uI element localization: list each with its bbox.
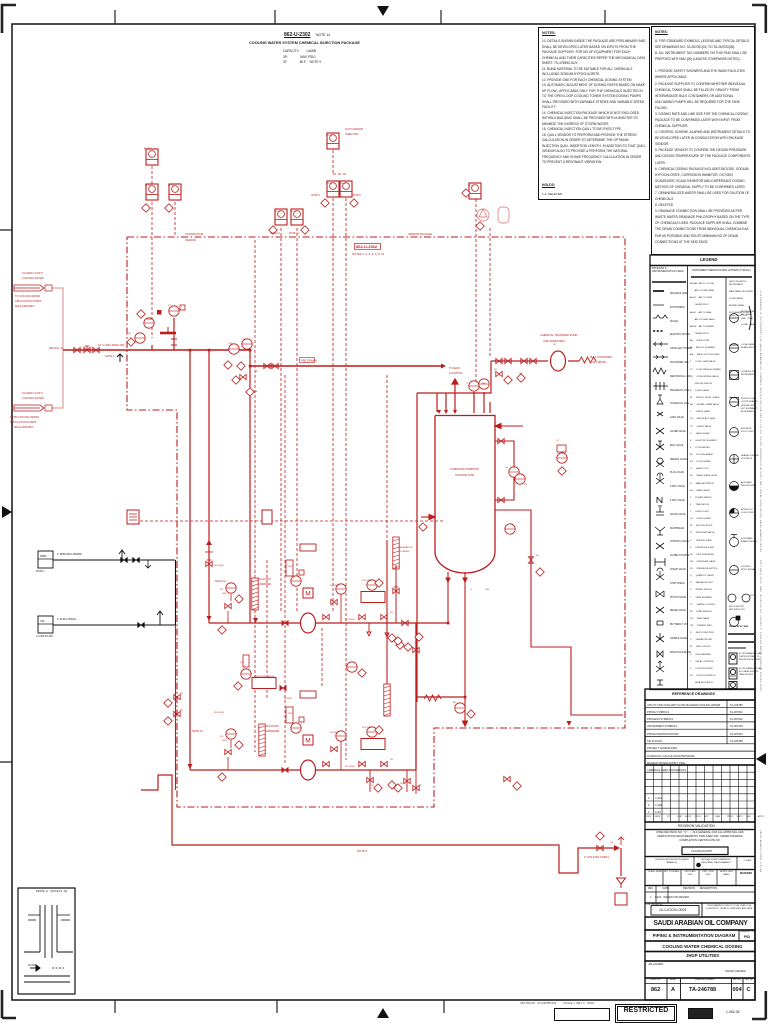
svg-text:HV: HV — [610, 842, 614, 844]
svg-text:PSHH: PSHH — [146, 319, 152, 321]
svg-text:0911: 0911 — [222, 740, 227, 742]
svg-text:CALIBRATION: CALIBRATION — [398, 546, 413, 549]
svg-text:862-E-2300A/B/C: 862-E-2300A/B/C — [14, 426, 34, 429]
svg-text:HV: HV — [536, 555, 540, 557]
svg-text:XV: XV — [371, 785, 374, 787]
svg-text:LG: LG — [505, 467, 508, 469]
svg-text:BULK CONTAINER: BULK CONTAINER — [590, 356, 612, 359]
svg-text:VENDOR: VENDOR — [185, 238, 196, 242]
svg-text:DAMPENER: DAMPENER — [266, 730, 279, 733]
svg-text:862-E-2300A/B/C: 862-E-2300A/B/C — [15, 305, 35, 308]
svg-text:PG: PG — [220, 589, 223, 591]
svg-text:PSV 0912: PSV 0912 — [362, 727, 373, 729]
svg-text:AT 13: AT 13 — [168, 184, 174, 187]
svg-text:XV: XV — [419, 785, 422, 787]
svg-text:CONTRACTOR: CONTRACTOR — [185, 232, 203, 236]
svg-text:NOTE 5: NOTE 5 — [105, 354, 115, 358]
svg-text:HS 31: HS 31 — [326, 135, 333, 137]
svg-text:HV: HV — [494, 369, 498, 371]
svg-text:HV (0913): HV (0913) — [214, 712, 224, 714]
svg-text:DETAIL 'A': DETAIL 'A' — [49, 346, 64, 350]
svg-text:862-U-2302: 862-U-2302 — [356, 244, 378, 249]
svg-text:PG: PG — [240, 662, 243, 664]
svg-text:LI: LI — [466, 383, 468, 385]
svg-text:NOTE 11: NOTE 11 — [289, 232, 299, 235]
svg-text:LOCATION: LOCATION — [449, 371, 462, 375]
svg-text:NOTE 8: NOTE 8 — [352, 194, 361, 197]
svg-text:CHEMICAL TRANSFER PUMP: CHEMICAL TRANSFER PUMP — [540, 333, 578, 337]
svg-text:CLOSED LOOP C.: CLOSED LOOP C. — [22, 271, 44, 275]
svg-text:ANTI FOAM/AB: ANTI FOAM/AB — [345, 128, 363, 131]
svg-text:(AIR DRUM): (AIR DRUM) — [592, 361, 606, 364]
svg-text:XV (0914): XV (0914) — [345, 766, 355, 768]
svg-text:HS 33: HS 33 — [340, 183, 347, 185]
svg-text:HV: HV — [255, 371, 259, 373]
svg-text:PSV: PSV — [288, 713, 293, 715]
svg-text:PSV: PSV — [288, 566, 293, 568]
svg-text:CORROSION INHIBITOR: CORROSION INHIBITOR — [450, 468, 479, 471]
svg-text:PULSATION: PULSATION — [258, 578, 271, 581]
svg-text:XV 22: XV 22 — [290, 211, 297, 213]
svg-text:HV: HV — [519, 373, 523, 375]
svg-text:DAMPENER: DAMPENER — [258, 583, 271, 586]
svg-text:NOTE 10: NOTE 10 — [192, 729, 203, 733]
svg-text:AT 0911: AT 0911 — [144, 147, 153, 150]
svg-text:PD: PD — [553, 344, 556, 346]
svg-text:CLOSED LOOP C.: CLOSED LOOP C. — [22, 391, 44, 395]
svg-text:(AIR OPERATED): (AIR OPERATED) — [543, 339, 565, 343]
svg-text:LI: LI — [470, 589, 472, 591]
svg-text:LSH: LSH — [485, 589, 490, 591]
svg-text:COOLING WATER: COOLING WATER — [22, 396, 44, 400]
svg-text:HS 32: HS 32 — [326, 183, 333, 185]
svg-text:XV 21: XV 21 — [274, 211, 281, 213]
svg-text:HV: HV — [390, 612, 394, 614]
svg-text:XV 0912: XV 0912 — [284, 698, 293, 700]
svg-text:TO MAIN: TO MAIN — [449, 366, 460, 370]
svg-text:TO COOLING WATER: TO COOLING WATER — [15, 295, 40, 298]
svg-text:0901: 0901 — [222, 593, 228, 595]
svg-text:64" C-W62-4302S-A51: 64" C-W62-4302S-A51 — [98, 343, 125, 347]
svg-text:PULSATION: PULSATION — [266, 725, 279, 728]
svg-text:HV: HV — [524, 484, 528, 486]
svg-text:XV: XV — [400, 783, 403, 785]
svg-text:PSV 0902: PSV 0902 — [362, 580, 373, 582]
svg-text:HV (0903): HV (0903) — [214, 565, 224, 567]
svg-text:NOTES 1, 2, 3, 4, 6, 9, 10: NOTES 1, 2, 3, 4, 6, 9, 10 — [352, 252, 385, 256]
svg-text:PI 41: PI 41 — [468, 185, 474, 187]
svg-text:CYLINDER: CYLINDER — [398, 551, 409, 553]
svg-text:PG 0912: PG 0912 — [330, 732, 339, 734]
svg-text:HV: HV — [180, 693, 184, 695]
svg-text:STORAGE TANK: STORAGE TANK — [455, 474, 475, 477]
svg-text:NOTE 10: NOTE 10 — [215, 579, 226, 583]
svg-text:INJECTION: INJECTION — [345, 133, 358, 136]
svg-text:PRESSURE GAUGE: PRESSURE GAUGE — [254, 675, 275, 678]
svg-text:NOTE 8: NOTE 8 — [311, 194, 320, 197]
svg-text:TSH: TSH — [228, 343, 233, 345]
svg-text:LSH: LSH — [481, 383, 486, 385]
svg-text:CIRCULATION PUMPS: CIRCULATION PUMPS — [15, 300, 42, 303]
svg-text:PG 0902: PG 0902 — [330, 585, 339, 587]
svg-text:NOTE 9: NOTE 9 — [357, 849, 368, 853]
svg-text:2" DW 6202-CS2P4: 2" DW 6202-CS2P4 — [584, 855, 609, 859]
svg-text:NOTE 11: NOTE 11 — [270, 232, 280, 235]
svg-text:AT 12: AT 12 — [145, 184, 151, 187]
svg-text:FROM COOLING WATER: FROM COOLING WATER — [10, 416, 39, 419]
svg-text:AIT: AIT — [453, 701, 457, 704]
svg-text:PSE: PSE — [253, 391, 258, 393]
svg-text:LIT: LIT — [556, 440, 560, 442]
svg-text:VENDOR PACKAGE: VENDOR PACKAGE — [408, 232, 432, 236]
svg-text:XV (0904): XV (0904) — [345, 619, 355, 621]
svg-text:HV: HV — [180, 710, 184, 712]
svg-text:HV: HV — [390, 759, 394, 761]
svg-text:COOLING WATER: COOLING WATER — [22, 276, 44, 280]
svg-text:PG: PG — [220, 736, 223, 738]
svg-text:CIRCULATION PUMPS: CIRCULATION PUMPS — [10, 421, 37, 424]
svg-text:PG: PG — [128, 333, 131, 335]
